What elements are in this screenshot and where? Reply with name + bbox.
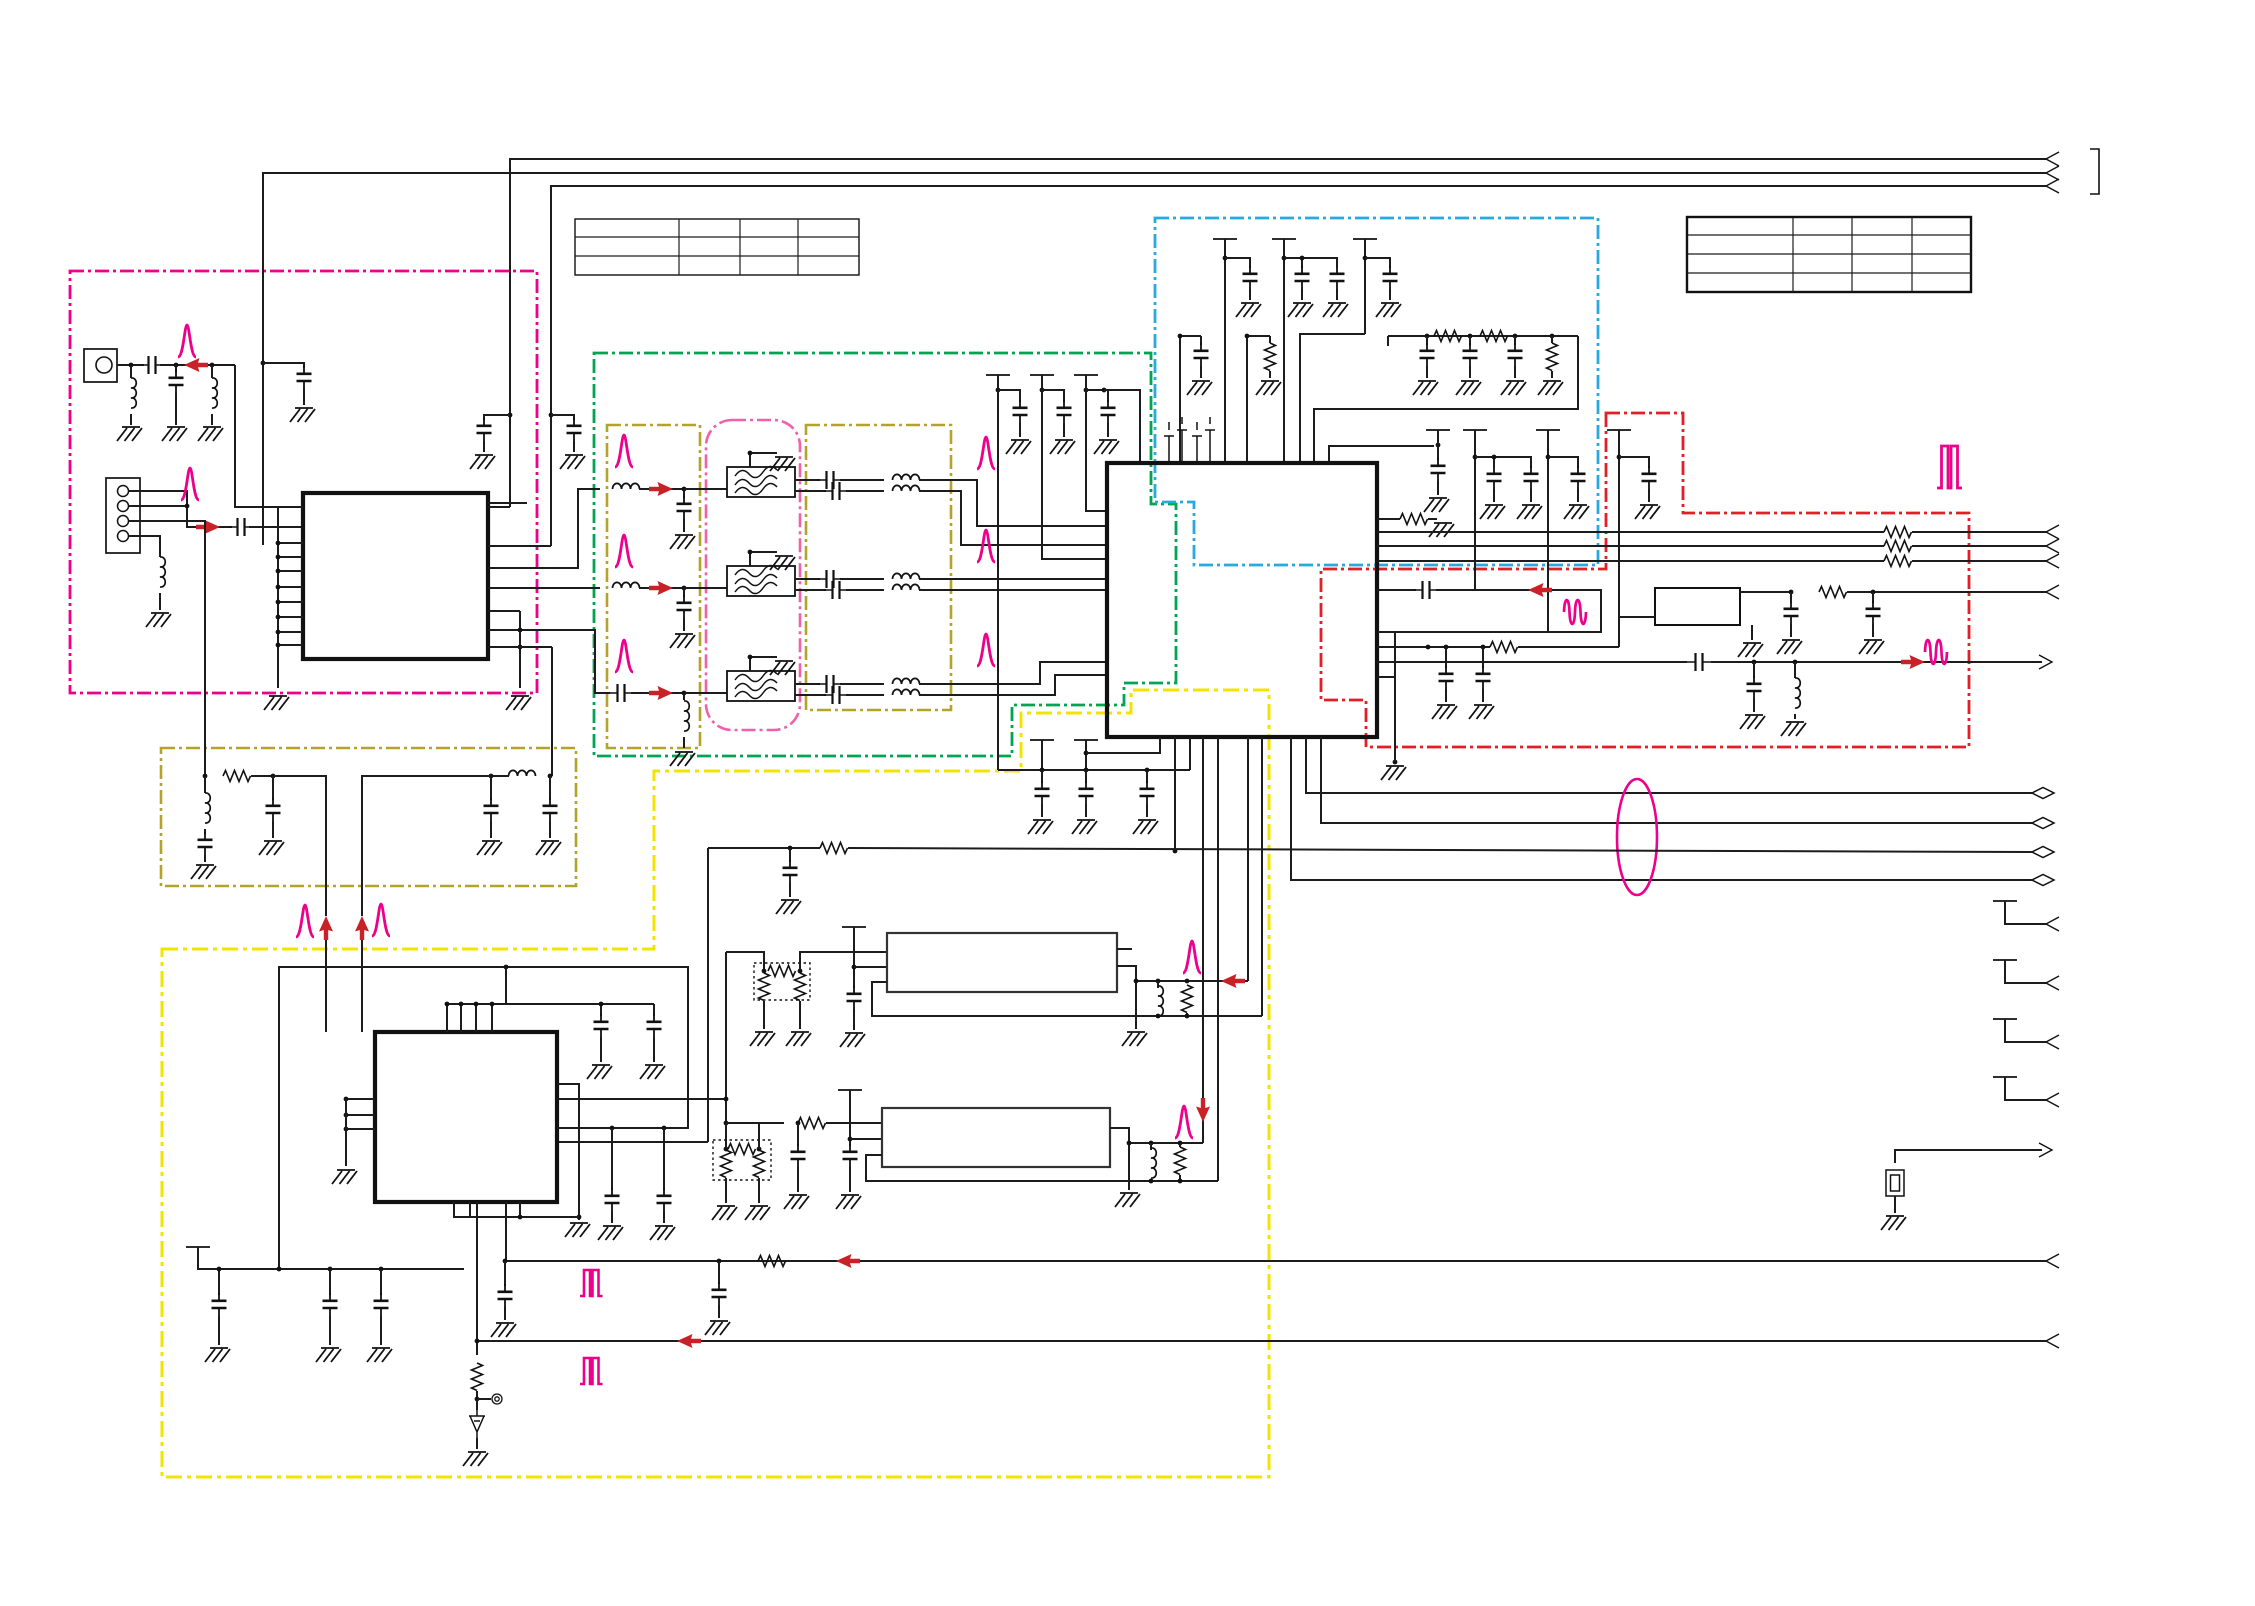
- ground R4: [1429, 523, 1454, 537]
- rail 1475: [1474, 430, 1476, 590]
- cap amp1 lead: [853, 1009, 855, 1030]
- U2 pin 632: [1377, 631, 1395, 633]
- ground yellow 219: [205, 1348, 230, 1362]
- drop 506: [505, 967, 507, 1004]
- U3 top pin 447: [446, 1004, 448, 1032]
- lead row2 cap b: [683, 618, 685, 631]
- supply rail 3: [1364, 239, 1366, 334]
- resistor R10: [798, 1118, 826, 1129]
- node olive3 left: [203, 774, 208, 779]
- ground under C6: [290, 408, 315, 422]
- ground D1: [463, 1452, 488, 1466]
- synthesizer IC U3: [375, 1032, 557, 1202]
- resistor R9 (vco ctl): [472, 1363, 483, 1391]
- U2 pin to line2: [1321, 737, 2032, 823]
- U3 pin drop wire: [520, 1202, 579, 1217]
- node 1395: [1393, 760, 1398, 765]
- FL2 out lower b: [846, 589, 884, 591]
- capacitor ladder 1427: [1420, 343, 1435, 366]
- waveform: TX peak: [181, 468, 199, 500]
- table right row line 2: [1687, 253, 1971, 255]
- node on U1 left bus 8: [276, 615, 281, 620]
- dashed box: VCO supply (olive): [161, 748, 576, 886]
- resistor R6: [1819, 587, 1847, 598]
- T rail 198: [186, 1246, 210, 1248]
- capacitor C20 (series): [1414, 581, 1438, 599]
- lead C4: [483, 441, 485, 452]
- ground U3 right 664: [650, 1226, 675, 1240]
- capacitor 1494: [1487, 466, 1502, 489]
- rail cap tap 1042: [1042, 390, 1064, 402]
- capacitor C16: [198, 832, 213, 855]
- ground below U2 1147: [1133, 820, 1158, 834]
- capacitor yellow 330: [323, 1293, 338, 1316]
- capacitor C19: [543, 798, 558, 821]
- U2 pin cap wire: [1377, 589, 1416, 591]
- node R5 b: [1444, 645, 1449, 650]
- wire 1104 to U2: [1104, 390, 1140, 463]
- wire: J2 pin4: [129, 536, 160, 557]
- diode lead: [476, 1399, 478, 1410]
- wire: receive signal bus 1: [510, 159, 2046, 507]
- wire olive3 a: [251, 775, 273, 777]
- cap amp2 lead: [849, 1167, 851, 1192]
- tp wire: [477, 1398, 491, 1400]
- ground under C16: [191, 865, 216, 879]
- red arrow row2: [649, 581, 673, 595]
- rail cap tap 1086: [1086, 390, 1108, 402]
- ground FL2: [770, 556, 795, 570]
- inductor L12: [893, 689, 920, 695]
- capacitor C3 (series): [229, 518, 253, 536]
- ground FL3: [770, 661, 795, 675]
- lead cap below b 1086: [1085, 804, 1087, 817]
- arrow end crystal line: [2039, 1143, 2052, 1157]
- A2 out pin wire: [1110, 1128, 1129, 1190]
- wire rail2 cap2 tap: [1302, 258, 1337, 268]
- wire 1548 cap: [1548, 457, 1578, 468]
- ground under C4: [470, 455, 495, 469]
- lead C23b: [1790, 624, 1792, 637]
- IF line 1 a: [1377, 531, 1884, 533]
- lead cap 1438: [1437, 481, 1439, 495]
- node U3 left 1129: [344, 1127, 349, 1132]
- arrowhead IF 1: [2046, 525, 2059, 539]
- lead RA2b: [1179, 1175, 1181, 1181]
- FL2 out upper c: [919, 578, 1106, 580]
- lead cap 381 b: [380, 1316, 382, 1345]
- ground amp2 in: [836, 1195, 861, 1209]
- RN1 gnd lead a: [763, 1001, 765, 1029]
- receiver IC U2: [1107, 463, 1377, 737]
- U2 pin 1175 drop: [1174, 737, 1176, 851]
- U2 pin 662 wire: [1377, 661, 1687, 663]
- wire 753: [1086, 737, 1160, 753]
- ground U3 top 601: [587, 1065, 612, 1079]
- supply rail T 2: [1272, 238, 1296, 240]
- node rail2 cap2: [1300, 256, 1305, 261]
- FL1 top gnd wire: [750, 453, 777, 467]
- node loop top: [504, 965, 509, 970]
- node on U1 left bus 4: [276, 555, 281, 560]
- dotted resistor network box 2: [713, 1140, 771, 1180]
- lead C2 bottom: [175, 393, 177, 425]
- lead C16 b: [204, 855, 206, 862]
- node ladder c: [1513, 334, 1518, 339]
- U2 pin to line1: [1306, 737, 2032, 793]
- R9 lead: [476, 1391, 478, 1399]
- diode lead b: [476, 1438, 478, 1449]
- rail T left 998: [986, 374, 1010, 376]
- lead C23a: [1790, 592, 1792, 603]
- U1 left pin 1 stub: [278, 506, 303, 508]
- ground ladder 1427: [1413, 381, 1438, 395]
- bracket: bus group marker: [2090, 149, 2099, 194]
- wire row2 a: [639, 587, 684, 589]
- ground under C10: [670, 634, 695, 648]
- wire: antenna feed: [117, 364, 144, 366]
- lead cap 612 b: [611, 1211, 613, 1223]
- U3 bottom pin c: [505, 1202, 507, 1261]
- ground under C19: [536, 841, 561, 855]
- ground yellow 330: [316, 1348, 341, 1362]
- amp2 in wire: [726, 1122, 784, 1124]
- wire: drop to olive box right: [551, 647, 553, 776]
- rail cap lead 1086: [1107, 423, 1109, 437]
- trimmer cap pair 1: [1164, 417, 1187, 463]
- connector J2 pin3: [118, 516, 129, 527]
- FL1 out lower b: [846, 490, 884, 492]
- node olive3 mid-right: [489, 774, 494, 779]
- ground yellow 381: [367, 1348, 392, 1362]
- table: frequency list (right): [1687, 217, 1971, 292]
- antenna connector J1: [84, 349, 117, 382]
- U3 left bus: [345, 1099, 347, 1166]
- resistor RN2b: [721, 1150, 732, 1178]
- wire A2 to U2: [1202, 737, 1204, 1143]
- connector J2 pin2: [118, 501, 129, 512]
- table left row line 2: [575, 255, 859, 257]
- rail 1548: [1547, 430, 1549, 632]
- ground 1446: [1432, 705, 1457, 719]
- arrow end TX: [2039, 655, 2052, 669]
- resistor R8: [758, 1256, 786, 1267]
- vertical 727: [725, 952, 727, 1123]
- node on U1 left bus 10: [276, 643, 281, 648]
- node 1754: [1752, 660, 1757, 665]
- ground C26: [705, 1321, 730, 1335]
- lead 1494: [1493, 457, 1495, 468]
- node A1 out a: [1156, 979, 1161, 984]
- capacitor mid blue: [1194, 343, 1209, 366]
- stub wire 1: [2005, 901, 2046, 924]
- ground C23: [1777, 640, 1802, 654]
- node 727 b: [724, 1121, 729, 1126]
- wire: J2 pin2 to TX coupling: [129, 506, 232, 527]
- A1 out stub: [1117, 948, 1132, 950]
- U1 left pin 4: [278, 556, 303, 558]
- node 1217 a: [518, 1215, 523, 1220]
- ground U3 left: [332, 1170, 357, 1184]
- lead C22: [1753, 662, 1755, 678]
- node amp2 rail: [848, 1137, 853, 1142]
- capacitor C2 (shunt): [169, 370, 184, 393]
- lead cap 664: [663, 1128, 665, 1190]
- lead cap below b 1042: [1041, 804, 1043, 817]
- U3 bottom pin stub a: [454, 1202, 520, 1217]
- lead C22b: [1753, 699, 1755, 712]
- node U1 aux bus a: [518, 628, 523, 633]
- capacitor C14 (series): [818, 675, 842, 693]
- node A2 grid b: [1178, 1179, 1183, 1184]
- rail cap gnd 1086: [1094, 440, 1119, 454]
- wire: antenna to IC pin: [235, 365, 278, 507]
- waveform peak VCO B: [372, 904, 390, 936]
- node R5 c: [1481, 645, 1486, 650]
- IF line 3 a: [1377, 560, 1884, 562]
- stub arrowhead 2: [2046, 976, 2059, 990]
- waveform sine TX: [1925, 640, 1947, 664]
- rail left 1086 bend: [1086, 375, 1106, 511]
- U1 left pin bus: [277, 507, 279, 688]
- node RN1 b: [798, 969, 803, 974]
- lead L15: [1794, 662, 1796, 678]
- U1 right pin stub (nc): [488, 502, 527, 504]
- lead cap 1483: [1482, 647, 1484, 668]
- rail amp2: [849, 1090, 851, 1146]
- stub arrowhead 4: [2046, 1093, 2059, 1107]
- node audio cap: [788, 846, 793, 851]
- U3 top pin 461: [460, 1004, 462, 1032]
- node A2 out a: [1149, 1141, 1154, 1146]
- connector J2 pin4: [118, 531, 129, 542]
- lead C5: [573, 441, 575, 452]
- wire into FL4: [1619, 617, 1655, 647]
- lead L1: [130, 365, 132, 378]
- node ladder a: [1425, 334, 1430, 339]
- waveform peak row2-out: [977, 530, 995, 562]
- T rail amp1: [842, 926, 866, 928]
- A2 lower loop: [866, 1155, 1218, 1181]
- capacitor rail 2: [1295, 266, 1310, 289]
- node top bus 461: [459, 1002, 464, 1007]
- node A2 grid a: [1149, 1179, 1154, 1184]
- inductor L1: [131, 378, 136, 408]
- capacitor 1578: [1571, 466, 1586, 489]
- lead L2 bottom: [211, 414, 213, 425]
- ground 1649: [1635, 505, 1660, 519]
- waveform peak A2: [1175, 1106, 1193, 1138]
- magenta pulse bl2: [580, 1358, 603, 1384]
- node top bus 601: [599, 1002, 604, 1007]
- table right row line 3: [1687, 272, 1971, 274]
- node: J2 pin junction: [185, 504, 190, 509]
- node A2 out j: [1127, 1141, 1132, 1146]
- resistor R4: [1400, 514, 1428, 525]
- supply rail 1: [1224, 239, 1226, 463]
- node FL3 top: [748, 655, 753, 660]
- inductor L10: [684, 701, 689, 731]
- U2 pin res wire: [1377, 518, 1400, 520]
- lead cap 601 b: [600, 1037, 602, 1062]
- lead cap 1147 below: [1146, 770, 1148, 783]
- inductor L7 row2: [613, 582, 640, 588]
- diamond out 2: [2032, 818, 2054, 829]
- red arrow bl2: [677, 1334, 701, 1348]
- lead ladder cap 1470: [1469, 336, 1471, 345]
- ground 1395: [1381, 766, 1406, 780]
- ground A2 out: [1115, 1193, 1140, 1207]
- lead L16: [1157, 981, 1159, 988]
- inductor L11: [893, 678, 920, 684]
- resistor ladder R3: [1480, 331, 1508, 342]
- IF line 2 b: [1912, 545, 2046, 547]
- C21 wire right: [1711, 661, 2042, 663]
- ground res mid: [1256, 381, 1281, 395]
- node 1494: [1492, 455, 1497, 460]
- ground U3 top 654: [640, 1065, 665, 1079]
- capacitor C9 (series): [824, 482, 848, 500]
- arrowhead bottom line 1: [2046, 1254, 2059, 1268]
- stub T 2: [1993, 959, 2017, 961]
- arrowhead FL4 line: [2046, 585, 2059, 599]
- node 727 a: [724, 1097, 729, 1102]
- red arrow: IF in: [1528, 583, 1552, 597]
- ground 1438: [1424, 498, 1449, 512]
- wire: bus2 drop to U1: [262, 544, 264, 546]
- A2 out line: [1129, 1142, 1203, 1144]
- RN1 gnd lead b: [799, 1001, 801, 1029]
- node on U1 left bus 3: [276, 541, 281, 546]
- dashed box: IF output section (red): [1321, 413, 1969, 747]
- rail cap tap 998: [998, 390, 1020, 402]
- ground C22: [1740, 715, 1765, 729]
- U1 left pin 6: [278, 586, 303, 588]
- ground FL4: [1738, 643, 1763, 657]
- node rail 2: [1282, 256, 1287, 261]
- ground FL1: [770, 457, 795, 471]
- wire 1395 gnd: [1394, 632, 1396, 762]
- rail 998 lower: [997, 769, 999, 771]
- lead row2 cap: [683, 588, 685, 597]
- lead row3 ind: [683, 693, 685, 700]
- lead C25b: [789, 883, 791, 897]
- waveform peak VCO A: [296, 905, 314, 937]
- supply rail T 3: [1353, 238, 1377, 240]
- connector J2 (4-pin): [106, 478, 140, 553]
- waveform: RX narrowband peak: [178, 325, 196, 357]
- ground under L2: [198, 427, 223, 441]
- capacitor ladder 1515: [1508, 343, 1523, 366]
- FL1 out lower: [795, 490, 826, 492]
- resistor R7: [820, 843, 848, 854]
- capacitor C7 (shunt): [677, 496, 692, 519]
- lead ladder cap 1427: [1426, 336, 1428, 345]
- node 851 junction: [1173, 849, 1178, 854]
- capacitor 1483: [1476, 666, 1491, 689]
- arrowhead IF 2: [2046, 539, 2059, 553]
- node A2 out b: [1178, 1141, 1183, 1146]
- U3 bottom pin d (vco ctl): [476, 1202, 478, 1355]
- T rail 1548: [1536, 429, 1560, 431]
- T rail 1619: [1607, 429, 1631, 431]
- FL2 out lower: [795, 589, 826, 591]
- ground under C18: [477, 841, 502, 855]
- inductor L14: [509, 770, 536, 776]
- lead row1 cap b: [683, 519, 685, 532]
- ground under C7: [670, 535, 695, 549]
- U3 left pin 1129: [346, 1128, 375, 1130]
- capacitor C22: [1747, 676, 1762, 699]
- U1 left pin 10: [278, 644, 303, 646]
- lead C27: [797, 1123, 799, 1146]
- wire: audio line: [708, 847, 820, 849]
- lead C17 b: [272, 821, 274, 838]
- node ladder d: [1550, 334, 1555, 339]
- rail dot 1086: [1084, 388, 1089, 393]
- node 1269 b: [328, 1267, 333, 1272]
- node bus1 cap tap: [508, 413, 513, 418]
- lead C6: [303, 389, 305, 405]
- inductor L2: [212, 378, 217, 408]
- ground L15: [1781, 722, 1806, 736]
- lead C18 b: [490, 821, 492, 838]
- wire: bus1 cap tap: [484, 415, 510, 420]
- wire 1475 caps: [1475, 457, 1531, 468]
- dashed box: matching stage A (olive): [607, 425, 700, 748]
- resistor R1: [223, 771, 251, 782]
- filter FL2: [727, 565, 795, 596]
- lead cap 664 b: [663, 1211, 665, 1223]
- node on U1 left bus 5: [276, 569, 281, 574]
- ground rail cap 2: [1288, 303, 1313, 317]
- ground under C5: [560, 455, 585, 469]
- node U3 left 1115: [344, 1113, 349, 1118]
- inductor L8: [893, 573, 920, 579]
- capacitor 1531: [1524, 466, 1539, 489]
- lead cap 1483 b: [1482, 689, 1484, 702]
- resistor RN2c: [754, 1150, 765, 1178]
- U3 pin to amp nets: [557, 1098, 726, 1100]
- node top bus 447: [445, 1002, 450, 1007]
- capacitor C10 (shunt): [677, 595, 692, 618]
- T stub 1086: [1074, 739, 1098, 741]
- stub arrowhead 1: [2046, 917, 2059, 931]
- varactor D1: [469, 1410, 485, 1438]
- FL1 out upper b: [840, 479, 884, 481]
- inductor L6: [893, 485, 920, 491]
- crystal X1: [1886, 1170, 1904, 1196]
- lead cap 601: [600, 1004, 602, 1016]
- ground 579: [565, 1223, 590, 1237]
- ground under C17: [259, 841, 284, 855]
- lead 1578b: [1577, 489, 1579, 502]
- capacitor C26: [712, 1282, 727, 1305]
- wire row3 b: [684, 692, 727, 694]
- lead C19: [549, 776, 551, 800]
- wire rail 1 cap tap: [1225, 258, 1250, 268]
- node row2 shunt: [682, 586, 687, 591]
- ground rail2 cap2: [1323, 303, 1348, 317]
- waveform peak row2-in: [615, 535, 633, 567]
- table right col line 1: [1792, 217, 1794, 292]
- antenna connector J1 pin: [96, 357, 112, 373]
- waveform sine IF: [1564, 600, 1586, 624]
- U3 pin 1142 wire: [557, 1141, 708, 1143]
- FL2 out upper: [795, 578, 820, 580]
- node: ant C2 junction: [174, 363, 179, 368]
- node olive3 right: [548, 774, 553, 779]
